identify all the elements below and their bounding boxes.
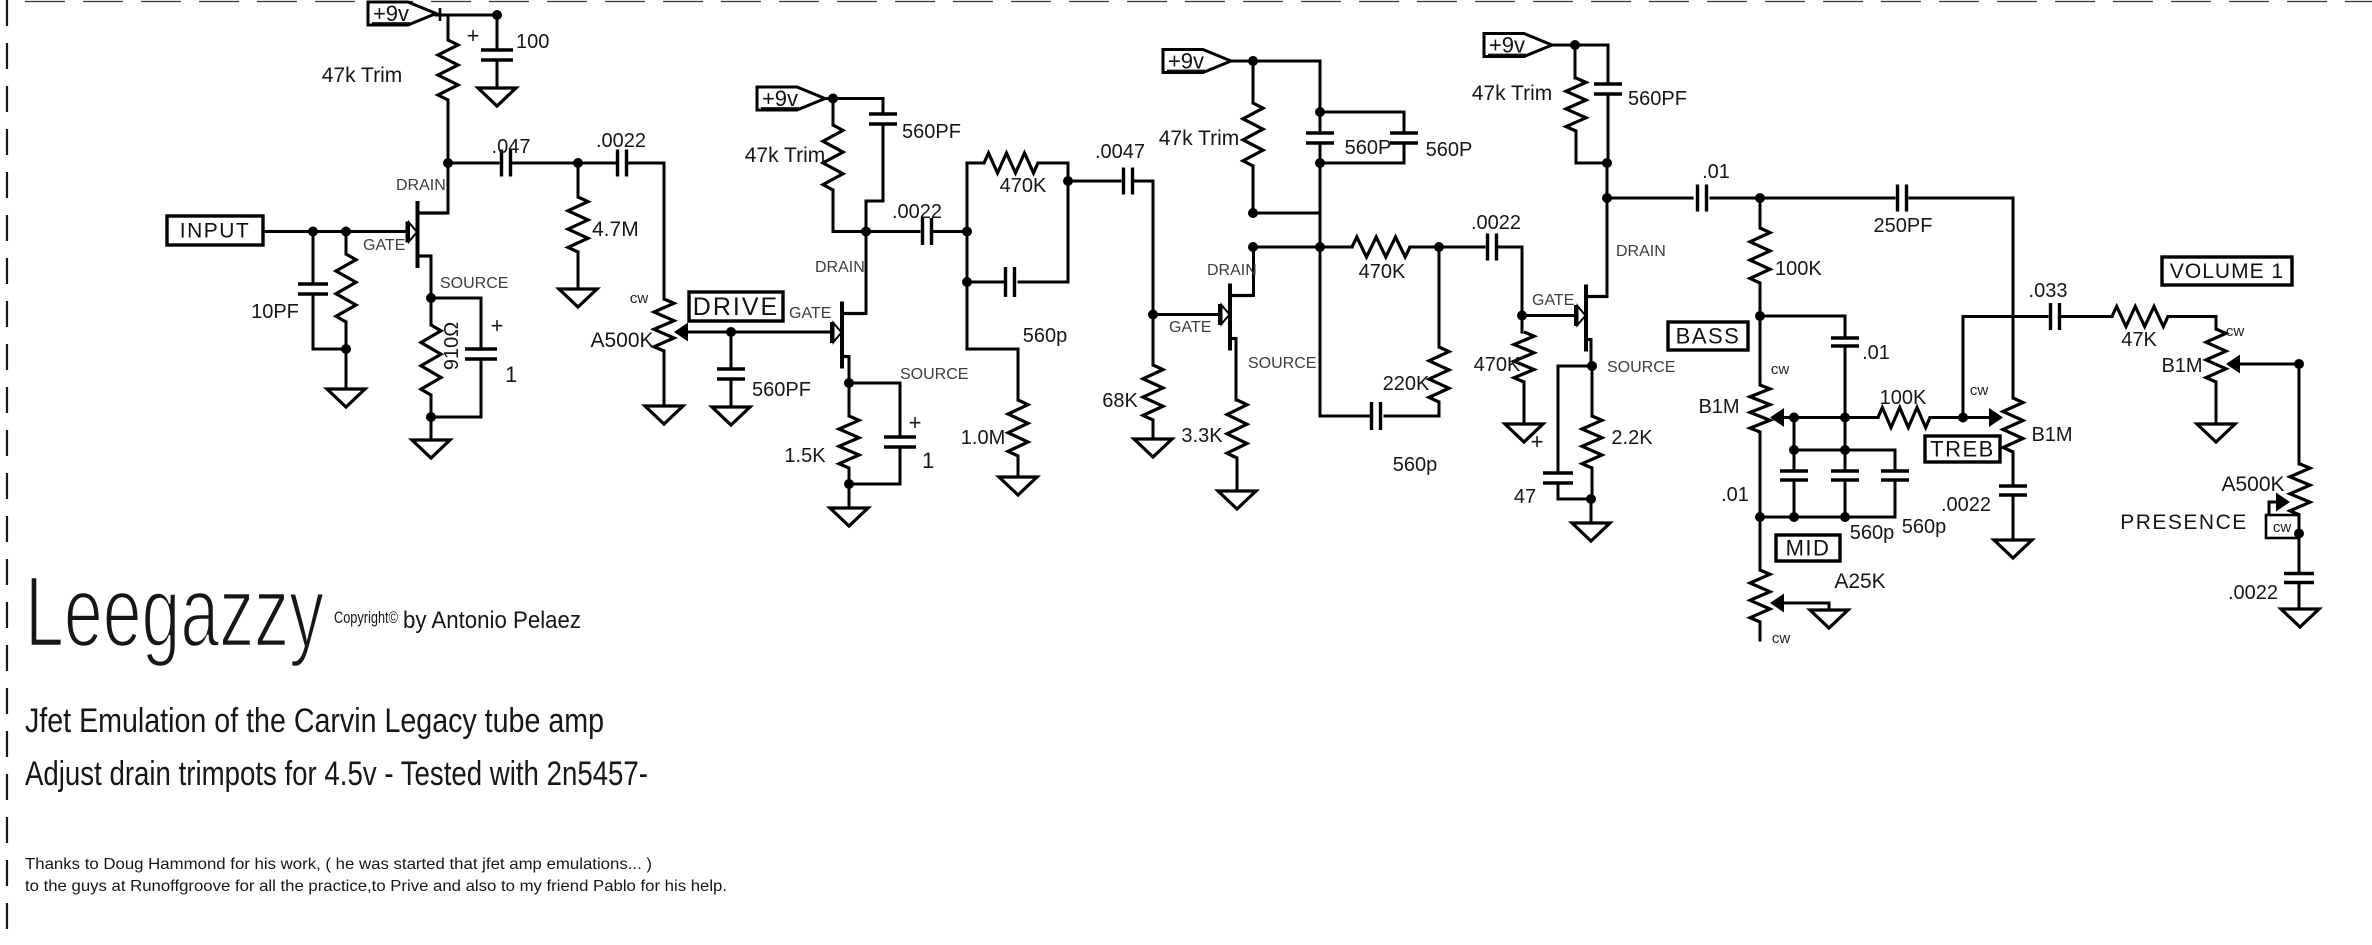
wire to stage 2 ground [848,484,851,508]
wire +9v to cap (stage 4) [1552,45,1608,84]
svg-text:4.7M: 4.7M [592,218,639,241]
wire drive wiper to Q2 gate [688,331,830,334]
svg-text:1.5K: 1.5K [784,445,826,467]
svg-text:.0047: .0047 [1095,141,1145,163]
transistor Q4 (2n5457) [1576,285,1608,352]
junction bottom rail / cap2 [1840,512,1850,522]
wire +9v to cap branch (stage 2) [826,97,883,100]
wire tie down to 220K [1438,247,1441,347]
wire C.01 bass down [1844,346,1847,418]
wire cap1 bottom lead [1793,480,1796,517]
wire caps bottom rail [1320,162,1404,165]
wire Q1 source down [430,256,433,298]
junction presence bottom [2294,529,2304,539]
wire 1.5K to bottom junction [848,468,851,484]
wire source to 910 resistor [430,298,433,325]
wire trim to tie (stage 4) [1576,131,1607,163]
svg-text:100K: 100K [1775,258,1822,280]
svg-text:GATE: GATE [1532,292,1574,309]
cw label box (presence pot) [2266,515,2299,538]
wire bass pot to bottom rail [1759,432,1762,517]
junction +9v stage 2 [828,94,838,104]
junction Q4 gate node [1517,311,1527,321]
junction drain node (stage 2) [861,227,871,237]
svg-text:.0022: .0022 [2228,582,2278,604]
capacitor 47 (electrolytic) [1543,473,1573,483]
wire 250PF to treble top [1910,198,2013,398]
svg-text:cw: cw [2273,519,2292,536]
wire treble node up to .033 branch [1963,317,2047,418]
svg-text:1.0M: 1.0M [961,427,1005,449]
junction 220K bottom [341,344,351,354]
wire 560P-a bottom lead [1319,144,1322,163]
svg-text:560p: 560p [1393,454,1438,476]
svg-text:A500K: A500K [2221,473,2284,496]
wire 47K to volume top [2168,317,2216,330]
wire +9v across (stage 3) [1231,61,1320,112]
junction trim/cap tie (stage 4) [1602,158,1612,168]
wire C100 to ground [496,61,499,88]
ground below volume [2197,424,2235,442]
wire 68K to ground [1152,420,1155,439]
wire RC right down [1019,181,1068,282]
resistor 910 ohm [421,325,441,395]
svg-text:10PF: 10PF [251,301,299,323]
ground below 1.0M [999,477,1037,495]
control label box MID [1776,535,1840,561]
wire Q3 drain up [1252,247,1255,296]
control label box VOLUME 1 [2162,257,2292,285]
wire gate node to Q3 [1153,313,1219,316]
capacitor .01 (coupling) [1698,185,1707,212]
svg-text:47k Trim: 47k Trim [1472,82,1553,105]
wire bypass cap to bottom [431,359,481,417]
wire C560PF to ground [730,380,733,407]
wire tie to C.0022 (stage 3) [1439,246,1484,249]
dashed top border [25,1,2372,3]
svg-text:B1M: B1M [1698,396,1739,418]
wire mix row [1794,416,1878,419]
wire 470K to RC right [1038,163,1068,181]
wire mid wiper to ground [1784,603,1829,610]
junction Q3 gate node [1148,310,1158,320]
wire trim resistor to drain node [447,100,450,163]
capacitor 560p (mid, second) [1831,471,1859,480]
capacitor .0022 (stage 1) [618,150,627,177]
junction volume wiper corner [2294,359,2304,369]
control label box BASS [1668,322,1748,350]
svg-text:VOLUME 1: VOLUME 1 [2170,260,2284,283]
wire mid caps bottom rail [1760,516,1895,519]
potentiometer VOLUME B1M [2206,329,2240,382]
wire 560p to RC left [967,281,1005,284]
capacitor .0022 (presence) [2284,574,2314,583]
wire tone top to 100K [1759,198,1762,228]
wire 100K mix to treble wiper node [1930,416,1963,419]
wire 1.0M to ground [1017,456,1020,477]
svg-text:SOURCE: SOURCE [1248,355,1316,372]
svg-text:DRAIN: DRAIN [1616,243,1666,260]
wire C.0022 to drive pot [629,163,664,299]
wire INPUT to Q1 gate [263,230,406,233]
svg-text:.0022: .0022 [892,201,942,223]
svg-text:.0022: .0022 [1941,494,1991,516]
wire 470K to tie point (stage 3) [1410,246,1439,249]
svg-text:220K: 220K [1383,373,1430,395]
wire volume wiper to presence [2240,363,2299,366]
junction source network bottom [426,412,436,422]
svg-text:to the guys at Runoffgroove fo: to the guys at Runoffgroove for all the … [25,878,727,895]
junction mix row / bass wiper [1789,413,1799,423]
power tag +9v (stage 4) [1484,33,1552,58]
capacitor 1 (electrolytic, stage 1) [465,349,497,359]
svg-text:47K: 47K [2121,329,2157,351]
junction bottom rail / bass pot [1755,512,1765,522]
power tag +9v (stage 2) [757,86,825,111]
wire to stage 4 ground [1590,499,1593,523]
junction stage 4 source bottom [1586,494,1596,504]
svg-text:470K: 470K [1359,261,1406,283]
wire gate node to Q4 [1522,314,1576,317]
wire bottom rail to mid pot [1759,517,1762,570]
wire Q3 source down [1235,339,1238,401]
wire trim to mid junction (stage 3) [1252,166,1255,213]
junction mid caps top middle [1840,445,1850,455]
wire cap3 bottom lead [1894,480,1897,517]
junction mid caps top left [1789,445,1799,455]
wire to input ground [345,349,348,389]
junction drain node (stage 3) [1248,242,1258,252]
wire presence wiper tie [2269,502,2299,534]
svg-text:47k Trim: 47k Trim [322,64,403,87]
svg-text:560PF: 560PF [1628,88,1687,110]
wire caps top rail [1320,111,1404,114]
svg-text:560p: 560p [1850,522,1895,544]
capacitor 560p (stage 3) [1372,402,1381,430]
capacitor .0022 (stage 3) [1488,234,1497,261]
wire C.033 to 47K [2062,315,2112,318]
wire C10PF to 220K bottom [313,294,346,349]
svg-text:68K: 68K [1102,390,1138,412]
ground below drive cap [712,407,750,425]
wire Q4 drain up [1606,198,1609,297]
wire 100K to bass node [1759,283,1762,316]
wire gate node to 470K [1521,316,1524,333]
wire Q2 drain up [865,232,868,314]
capacitor .01 (bass) [1831,338,1859,346]
svg-text:MID: MID [1786,535,1831,560]
transistor Q2 (2n5457) [832,302,867,369]
potentiometer MID A25K [1750,570,1784,622]
capacitor .01 (mid, first) [1780,471,1808,480]
wire presence pot bottom [2298,515,2301,534]
svg-text:DRAIN: DRAIN [396,177,446,194]
ground below 3.3K [1218,491,1256,509]
junction input node / 10PF [308,227,318,237]
svg-text:cw: cw [2226,323,2245,340]
wire C.047 to node A [513,162,578,165]
wire tie to caps (stage 3) [1253,212,1320,215]
svg-text:DRAIN: DRAIN [1207,262,1257,279]
wire source to 2.2K [1591,366,1594,416]
power tag +9v (stage 1) [368,1,436,26]
resistor 47K [2112,307,2168,327]
svg-text:A500K: A500K [590,329,653,352]
junction drain/caps (stage 3) [1315,242,1325,252]
wire C.0022 to Q4 gate node [1499,247,1522,316]
wire drain rail (stage 3) [1253,246,1352,249]
svg-text:560PF: 560PF [902,121,961,143]
svg-text:SOURCE: SOURCE [900,366,968,383]
wire node A to C.0022 [578,162,615,165]
svg-text:Copyright©: Copyright© [334,608,398,627]
transistor Q3 (2n5457) [1220,284,1254,351]
svg-text:560P: 560P [1345,137,1392,159]
wire C560PF to drain node (stage 2) [866,125,883,232]
svg-text:.0022: .0022 [596,130,646,152]
resistor 47k Trim (stage 1) [438,40,458,100]
capacitor .047 [502,150,511,177]
wire +9v into trim resistor [447,15,450,40]
wire volume pot to ground [2215,382,2218,424]
wire mid pot bottom stub [1759,622,1762,640]
wire source to bypass cap (stage 2) [849,383,900,437]
resistor 220K (stage 3) [1429,347,1449,402]
wire bass wiper node down [1793,418,1796,451]
wire 910 to bottom junction [430,395,433,417]
svg-text:DRIVE: DRIVE [693,293,779,321]
junction drain node (stage 1) [443,158,453,168]
wire bass cap node down [1844,418,1847,451]
wire RC left vertical [966,232,969,283]
junction mix row / bass cap [1840,413,1850,423]
wire C.01 to tone node [1711,197,1760,200]
svg-text:PRESENCE: PRESENCE [2120,511,2248,534]
junction tone stack top [1755,193,1765,203]
ground below treble [1994,540,2032,558]
resistor 470K (stage 3) [1352,237,1410,257]
svg-text:2.2K: 2.2K [1611,427,1653,449]
control label box TREB [1925,436,2000,462]
ground below C100 [478,88,516,106]
wire tie to drain (stage 4) [1606,163,1609,198]
resistor 1.5K [839,416,859,468]
wire to source ground [430,417,433,440]
dashed left border [6,0,8,945]
svg-text:SOURCE: SOURCE [1607,359,1675,376]
wire RC left up [967,163,984,232]
capacitor 560P (second) [1390,133,1418,143]
wire 560PF down (stage 4) [1607,95,1610,163]
svg-text:+: + [1531,429,1544,454]
ground below 220K [327,389,365,407]
junction drive wiper / 560PF [726,327,736,337]
svg-text:.047: .047 [492,136,531,158]
svg-text:470K: 470K [1474,354,1521,376]
svg-text:TREB: TREB [1930,436,1995,461]
wire drain node to C.0022 (stage 2) [866,230,919,233]
wire RC right to C.0047 [1068,180,1120,183]
wire bass wiper to mix row [1784,416,1794,419]
svg-text:GATE: GATE [363,237,405,254]
junction +9v stage 3 [1248,56,1258,66]
wire 560p to drain rail (stage 3) [1320,247,1371,416]
svg-text:560p: 560p [1023,325,1068,347]
wire Q1 drain up [447,163,450,213]
ground below 470K (stage 4) [1505,424,1543,442]
wire +9v to trim (stage 2) [832,99,835,126]
capacitor 560PF (stage 4) [1594,84,1622,94]
svg-text:A25K: A25K [1834,570,1885,593]
wire gate node to 68K [1152,315,1155,366]
wire 220K to 560p (stage 3) [1385,402,1439,416]
junction stage 2 source bottom [844,479,854,489]
capacitor .0047 [1124,168,1133,195]
junction RC right (stage 2) [1063,176,1073,186]
potentiometer DRIVE A500K [654,299,688,351]
svg-text:B1M: B1M [2161,355,2202,377]
wire bass node to C.01 bass [1760,316,1845,337]
resistor 4.7M [568,197,588,252]
svg-text:BASS: BASS [1676,323,1741,348]
wire down to C100 [496,15,499,48]
wire down to C560PF (stage 2) [882,99,885,114]
svg-text:Jfet Emulation of the Carvin L: Jfet Emulation of the Carvin Legacy tube… [25,702,604,740]
wire 560P-b bottom lead [1403,144,1406,163]
capacitor 250PF [1898,185,1907,212]
potentiometer TREB B1M [1989,398,2023,452]
junction Q4 source [1587,361,1597,371]
resistor 2.2K [1582,416,1602,468]
svg-text:B1M: B1M [2031,424,2072,446]
junction +9v / C100 [492,10,502,20]
resistor 68K [1143,365,1163,420]
wire cap1 top lead [1793,450,1796,469]
ground below 68K [1134,439,1172,457]
svg-text:3.3K: 3.3K [1181,425,1223,447]
potentiometer BASS B1M [1750,385,1784,432]
wire treble wiper [1963,416,1989,419]
wire 220K top [345,232,348,255]
capacitor 10PF [298,284,328,294]
svg-text:47: 47 [1514,486,1536,508]
svg-text:cw: cw [630,290,649,307]
junction node A [573,158,583,168]
capacitor .033 [2051,303,2060,330]
capacitor 560PF (stage 2) [869,114,897,124]
svg-text:GATE: GATE [789,305,831,322]
svg-text:560PF: 560PF [752,379,811,401]
capacitor .0022 (stage 2) [923,218,932,245]
wire cap 47 bottom [1558,483,1591,499]
junction 560P top (stage 3) [1315,107,1325,117]
resistor 1.0M [1008,400,1028,456]
wire node A down to 4.7M [577,163,580,197]
svg-text:.0022: .0022 [1471,212,1521,234]
wire trim to drain node (stage 2) [833,190,863,232]
capacitor 560P (first) [1306,133,1334,143]
svg-text:cw: cw [1970,382,1989,399]
svg-text:100: 100 [516,31,549,53]
capacitor 100 (electrolytic) [481,50,513,60]
wire down to presence pot [2298,364,2301,464]
wire source to bypass cap [431,298,481,349]
junction input node / 220K [341,227,351,237]
svg-text:1: 1 [505,362,517,387]
junction RC left lower (stage 2) [962,277,972,287]
wire bypass cap bottom (stage 2) [849,447,900,484]
resistor 100K (slope) [1750,228,1770,283]
ground below stage 4 source [1572,523,1610,541]
wire C.0022 treble to ground [2012,495,2015,540]
wire bass node to pot [1759,316,1762,385]
wire 4.7M to ground [577,252,580,289]
capacitor .0022 (treble) [1999,486,2027,495]
wire 470K to ground (stage 4) [1523,382,1526,424]
wire source to cap 47 [1558,366,1592,473]
svg-text:100K: 100K [1880,387,1927,409]
power tag +9v (stage 3) [1163,49,1231,74]
wire presence to C.0022 [2298,534,2301,574]
svg-text:INPUT: INPUT [180,220,251,243]
svg-text:+: + [491,313,504,338]
ground below 4.7M [559,289,597,307]
wire cap2 top lead [1844,450,1847,469]
svg-text:560P: 560P [1426,139,1473,161]
junction drain node (stage 4) [1602,193,1612,203]
capacitor 1 (electrolytic, stage 2) [884,437,916,447]
svg-text:1: 1 [922,448,934,473]
wire down to C10PF [312,232,315,285]
wire mid caps top rail [1794,450,1895,469]
resistor 47k Trim (stage 4) [1566,78,1586,131]
wire C.0022 to RC node (stage 2) [934,230,967,233]
resistor 47k Trim (stage 2) [823,125,843,190]
wire drive pot to ground [663,351,666,406]
wire cap2 bottom lead [1844,480,1847,517]
resistor 3.3K [1227,400,1247,458]
wire source to 1.5K [848,383,851,416]
resistor 470K (stage 4) [1514,332,1534,382]
svg-text:910Ω: 910Ω [441,322,463,370]
svg-text:47k Trim: 47k Trim [1159,127,1240,150]
ground below stage 2 source [830,508,868,526]
wire RC node to 1.0M [967,282,1018,400]
svg-text:.033: .033 [2029,280,2068,302]
wire drain to C.01 [1607,197,1692,200]
svg-text:.01: .01 [1702,161,1730,183]
wire 560P-a top lead [1319,112,1322,131]
input terminal box INPUT [167,216,263,245]
control label box DRIVE [689,292,783,321]
svg-text:Adjust drain trimpots for 4.5v: Adjust drain trimpots for 4.5v - Tested … [25,755,648,793]
svg-text:+: + [467,23,480,48]
svg-text:250PF: 250PF [1874,215,1933,237]
wire +9v to C100 node [436,14,497,17]
svg-text:Thanks to Doug Hammond for his: Thanks to Doug Hammond for his work, ( h… [25,856,652,873]
wire tone top to 250PF [1760,197,1894,200]
svg-text:470K: 470K [1000,175,1047,197]
junction 470K/220K tie (stage 3) [1434,242,1444,252]
wire C.0047 to Q3 gate node [1135,181,1153,315]
wire 2.2K to bottom junction [1591,468,1594,499]
wire 3.3K to ground [1236,458,1239,491]
resistor 220K (stage 1) [336,254,356,322]
ground below presence [2281,609,2319,627]
svg-text:DRAIN: DRAIN [815,259,865,276]
svg-text:560p: 560p [1902,516,1947,538]
junction bass node [1755,311,1765,321]
